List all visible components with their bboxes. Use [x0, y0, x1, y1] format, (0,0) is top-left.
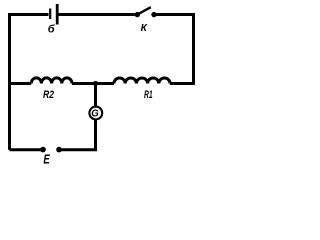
svg-text:Е: Е — [43, 152, 50, 167]
svg-text:б: б — [48, 23, 56, 35]
svg-text:G: G — [91, 107, 98, 119]
svg-text:R1: R1 — [144, 89, 153, 101]
svg-text:R2: R2 — [43, 89, 54, 101]
svg-text:К: К — [141, 23, 148, 34]
